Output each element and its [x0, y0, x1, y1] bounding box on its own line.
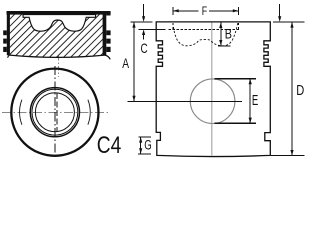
horizontal centerline [2, 111, 108, 113]
bowl rim hidden line [169, 28, 241, 30]
outer skirt circle [11, 69, 98, 156]
piston outline [156, 22, 270, 157]
pin bore circle (grey) [190, 79, 235, 124]
top edge extension right [273, 21, 305, 23]
dimension G [138, 136, 151, 138]
dimension C arrows [143, 4, 145, 18]
svg-text:B: B [225, 27, 232, 42]
vertical centerline (grey) [211, 22, 213, 155]
skirt bottom arc [10, 55, 105, 57]
right edge bar [103, 14, 107, 55]
svg-text:E: E [252, 93, 259, 109]
dimension F [172, 7, 174, 15]
svg-text:C4: C4 [97, 132, 122, 159]
vertical centerline [54, 66, 56, 159]
bowl hidden contour [173, 23, 238, 46]
pin bore circles [30, 88, 79, 137]
pin centerline [127, 100, 242, 102]
dimension E [214, 78, 256, 80]
left edge bar [7, 14, 10, 55]
dimension A [133, 22, 135, 102]
svg-text:A: A [122, 56, 129, 71]
crown top band [7, 11, 111, 15]
inner wall arc right [88, 100, 90, 125]
combustion bowl (white) [23, 15, 96, 32]
pin bore slot line [56, 93, 58, 132]
inner wall arc left [20, 100, 22, 125]
dimension D [279, 4, 281, 18]
right ring teeth [106, 30, 110, 35]
section centerline [58, 56, 60, 77]
dimension B [220, 22, 222, 45]
svg-text:C: C [141, 40, 148, 56]
top edge extension left [130, 21, 152, 23]
svg-text:D: D [296, 82, 304, 99]
rim solid stub left [138, 28, 165, 30]
svg-text:G: G [144, 138, 152, 153]
bottom edge extension right [271, 155, 305, 157]
svg-text:F: F [202, 5, 207, 18]
left ring teeth [3, 30, 7, 35]
hatched body [10, 15, 103, 58]
F extension dashes [172, 23, 174, 29]
